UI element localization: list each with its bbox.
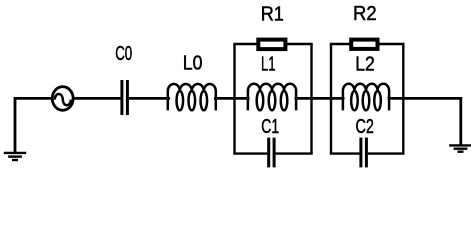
inductor L1 [248,84,296,111]
svg-text:R1: R1 [261,3,284,25]
tank2 bottom branch wire [330,152,360,154]
tank2 bottom branch wire right part [368,152,405,154]
svg-text:L0: L0 [183,53,203,75]
capacitor C1 [267,138,270,168]
svg-text:L2: L2 [355,54,375,76]
tank1 bottom branch wire [233,152,267,154]
AC source circle [52,87,73,111]
tank1 right wall [310,44,312,154]
ground (left) [4,153,26,160]
capacitor C2 [359,138,362,168]
resistor R1 [258,40,285,50]
wire: L2 to right corner and down to ground [388,98,461,144]
svg-text:C2: C2 [356,116,374,138]
svg-text:C1: C1 [261,116,279,138]
wire: L1 to L2 through tank walls [295,97,345,100]
AC source sine wave [55,94,71,105]
inductor L0 [168,84,216,110]
resistor R2 [351,40,377,49]
wire: C0 to L0 [129,97,170,100]
ground (right) [449,145,471,151]
tank2 left wall [330,44,332,154]
wire: left corner down to ground [15,98,53,152]
wire: source to C0 [74,97,121,100]
tank1 top branch wire [233,43,312,45]
svg-text:C0: C0 [115,43,132,65]
tank1 left wall [233,44,235,154]
svg-text:L1: L1 [261,54,276,76]
tank2 top branch wire [330,43,405,45]
inductor L2 [343,84,389,111]
tank1 bottom branch wire right part [276,152,313,154]
capacitor C0 [120,80,123,115]
tank2 right wall [402,44,404,154]
text rendering filter (non-visual) [0,0,1,1]
wire: L0 to L1 through tank1 left wall [214,97,250,100]
svg-text:R2: R2 [353,3,377,25]
